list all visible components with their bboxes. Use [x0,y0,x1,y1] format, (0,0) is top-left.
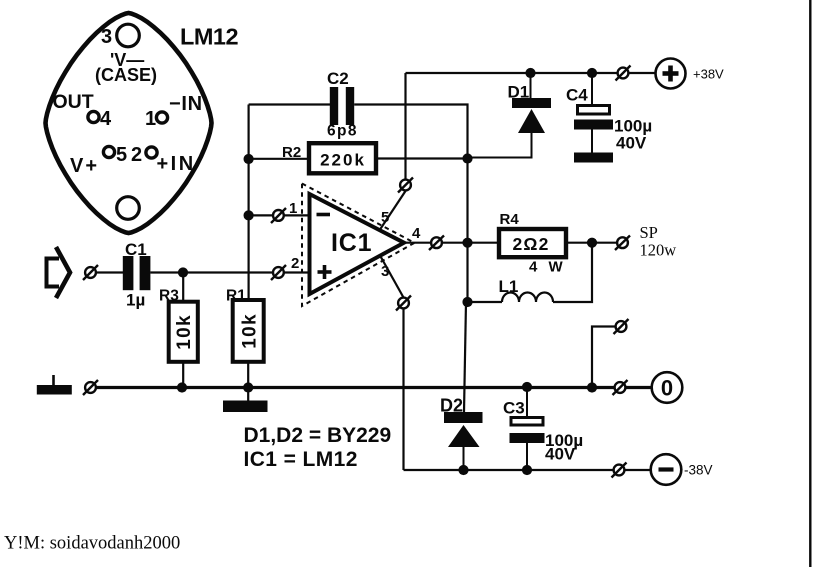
wire rail to ground bar [247,388,249,402]
wire pin2 [284,271,310,273]
resistor R2 [309,143,376,173]
node R3/rail junction [177,382,187,392]
svg-text:-38V: -38V [684,463,713,478]
wire -38V rail [404,469,651,471]
svg-text:6p8: 6p8 [327,123,358,140]
svg-text:OUT: OUT [53,91,94,113]
mounting hole top [117,24,140,47]
wire R2 right [376,157,468,159]
svg-text:1µ: 1µ [126,291,145,310]
pin 3 connector circle [396,296,411,311]
pin 1 connector circle [271,208,286,223]
svg-text:C2: C2 [327,69,349,88]
wire R3 bottom [182,362,184,388]
capacitor C1 [123,256,151,290]
node R4/L1 junction [587,238,597,248]
svg-text:R4: R4 [500,211,520,228]
svg-text:2Ω2: 2Ω2 [512,234,549,254]
wire C2 right [354,105,467,303]
svg-text:3: 3 [381,263,389,280]
wire 0V rail [96,386,652,389]
svg-text:LM12: LM12 [180,24,239,50]
svg-text:IC1: IC1 [331,229,372,257]
svg-text:+38V: +38V [693,67,724,82]
svg-text:10k: 10k [174,314,195,350]
wire input to C1 [96,271,123,273]
svg-text:4: 4 [412,225,421,242]
svg-text:3: 3 [101,26,112,48]
svg-text:C1: C1 [125,240,147,259]
mounting hole bottom [117,197,140,220]
wire stub to connector [592,327,615,388]
node pin1 junction [244,210,254,220]
svg-text:+IN: +IN [157,153,196,175]
svg-text:2: 2 [131,144,142,166]
pin 2 pad [146,147,157,158]
wire left vertical feedback node [248,105,250,301]
wire pin3 to -38 rail [380,256,404,471]
pin 5 connector circle [398,178,413,193]
svg-text:V+: V+ [70,155,99,177]
svg-text:220k: 220k [320,151,366,170]
svg-text:5: 5 [116,144,127,166]
connector circle 0 rail left [83,380,98,395]
svg-text:40V: 40V [545,445,576,464]
svg-text:(CASE): (CASE) [95,65,157,85]
package outline LM12 TO-3 case [46,13,212,233]
label V- (CASE) [95,50,157,85]
resistor R1 [233,300,264,362]
wire R3 top [182,273,184,303]
resistor R3 [169,302,198,362]
op-amp IC1 dashed boundary [302,184,415,307]
node L1/D2 junction [462,297,472,307]
node C4 rail junction [587,68,597,78]
svg-text:−IN: −IN [169,93,203,115]
pin 2 connector circle [271,265,286,280]
connector circle 0 rail right [613,380,628,395]
ground bar under C4 [574,153,613,163]
svg-text:10k: 10k [240,313,261,349]
terminal 0 [652,372,683,403]
svg-text:0: 0 [661,376,673,401]
node input/R3 junction [178,267,188,277]
wire R2 left [249,158,309,160]
wire C1 to pin2 [150,271,273,273]
resistor R4 [499,229,566,257]
diode D1 [468,73,552,158]
svg-text:5: 5 [381,209,389,226]
wire R1 bottom [247,362,249,388]
inductor L1 [468,243,593,302]
ground bar under R1 [223,401,268,413]
node C3/-38 rail junction [522,465,532,475]
connector circle stub [614,319,629,334]
node stub junction [587,382,597,392]
svg-text:4 W: 4 W [529,258,566,275]
input arrow symbol [47,247,71,298]
pin 5 pad [103,146,114,157]
node C3 rail junction [522,382,532,392]
svg-text:IC1 = LM12: IC1 = LM12 [244,448,358,471]
ground symbol left [37,375,72,395]
wire pin4 output [404,242,499,244]
connector circle -38 rail [612,463,627,478]
terminal +38V [656,59,686,89]
svg-text:40V: 40V [616,134,647,153]
svg-text:C3: C3 [503,399,525,418]
minus input mark [317,213,331,217]
svg-text:Y!M: soidavodanh2000: Y!M: soidavodanh2000 [4,534,180,554]
plus input mark [318,265,332,279]
connector circle SP [615,236,630,251]
wire R4 right [566,242,617,244]
svg-text:120w: 120w [640,241,677,260]
pin 1 pad [156,112,167,123]
terminal -38V [651,454,682,485]
svg-text:D1,D2 = BY229: D1,D2 = BY229 [244,424,392,447]
pin 4 pad [88,111,99,122]
svg-text:1: 1 [145,108,156,130]
op-amp IC1 triangle [310,194,405,294]
connector circle +38 rail [616,66,631,81]
node D2/-38 rail junction [458,465,468,475]
input connector circle [83,265,98,280]
wire C2 left [249,103,330,105]
capacitor C4 electrolytic [574,73,613,153]
node R2 left junction [244,154,254,164]
svg-text:2: 2 [291,255,299,272]
node D1 rail junction [525,68,535,78]
node output junction [462,238,472,248]
wire +38V rail [406,72,656,74]
wire pin5 to +38 rail [380,73,406,230]
svg-text:4: 4 [100,108,112,130]
node R2/D1 junction [462,153,472,163]
capacitor C2 [330,87,354,125]
wire output to D2 [464,302,466,412]
pin 4 connector circle [429,236,444,251]
svg-text:C4: C4 [566,86,588,105]
node R1/rail junction [243,382,253,392]
svg-text:1: 1 [289,200,297,217]
diode D2 [444,412,483,470]
border frame right edge [809,0,811,567]
capacitor C3 electrolytic [510,387,545,470]
svg-text:SP: SP [640,223,658,242]
wire pin1 [249,214,310,216]
